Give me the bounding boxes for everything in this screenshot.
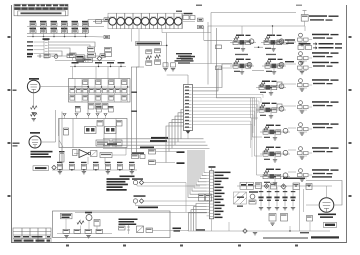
wire to terminal E1 — [88, 20, 104, 27]
node wire row — [55, 60, 115, 62]
bottom wire right — [188, 229, 262, 235]
top box B1 — [97, 121, 103, 127]
border bottom — [12, 242, 347, 244]
net label heater 4 — [140, 147, 154, 149]
filter capacitor bank — [258, 187, 295, 210]
relay cluster RL1 — [132, 152, 146, 158]
power bus wire — [52, 169, 137, 171]
bus filter capacitors — [57, 162, 135, 170]
zone tick left C — [8, 142, 20, 147]
psu small box — [307, 216, 313, 222]
speaker comp marks — [127, 225, 130, 234]
connector P1 right fan drops — [251, 94, 264, 157]
revision table row 1 text — [15, 5, 69, 7]
wire segment w1 — [50, 55, 67, 57]
net label gnd1 — [177, 151, 185, 153]
diode CR1 diamond — [97, 56, 102, 61]
stage1 value text — [235, 54, 276, 55]
input network rail 1 — [27, 26, 90, 28]
wire segment w2 — [85, 55, 101, 57]
vertical bus v2 — [61, 112, 63, 171]
under-block clusters — [75, 106, 114, 112]
psu bus wire — [237, 185, 332, 187]
output grounds — [64, 236, 90, 238]
revision table row 2 cells — [14, 7, 67, 10]
amplifier stage 1a — [230, 26, 256, 51]
psu diamond 2 — [281, 184, 286, 189]
matrix row4 boxes — [89, 104, 109, 110]
matrix junction dots — [74, 86, 128, 87]
connector J1 left pin wires — [34, 42, 45, 54]
output group 9 — [298, 169, 339, 182]
stage4 out components — [277, 104, 296, 108]
output transistor Q5 — [85, 212, 92, 221]
input network bottom rail — [27, 36, 88, 37]
node drop x88 — [87, 86, 89, 113]
zone number 4 bottom — [238, 245, 241, 247]
wire top bus 2 — [208, 25, 305, 27]
connector P2 body — [210, 168, 214, 219]
matrix row3 boxes — [70, 96, 127, 101]
title table bottom row — [14, 240, 50, 242]
indicator wire 4 — [136, 203, 197, 205]
resistor network RN1 — [70, 53, 77, 61]
stage bus verticals — [251, 98, 257, 175]
delay cluster D1 — [85, 127, 97, 134]
component B5 — [73, 150, 78, 156]
zone mark top right — [296, 5, 302, 7]
bus feed drops — [62, 148, 105, 165]
stage feed stubs — [251, 118, 263, 175]
amplifier stage 4 — [256, 103, 286, 119]
component cluster A1 — [44, 54, 50, 58]
connector P1 left fan wires — [156, 110, 184, 163]
label text impedance — [76, 59, 86, 62]
text under flags — [180, 56, 195, 60]
bottom box B4 — [112, 140, 122, 146]
psu lower wire — [262, 230, 330, 232]
output squiggle R20 — [77, 220, 84, 225]
stage2 link wire — [216, 66, 265, 71]
connector P1 right fan wires — [193, 94, 264, 124]
bus junctions — [59, 169, 132, 170]
connector P1 right fan wires up — [193, 64, 233, 91]
stage1 link wire — [216, 45, 264, 49]
regulator box VR1 — [100, 153, 112, 158]
tube V2 notes — [31, 151, 53, 158]
speaker comp 1 — [119, 226, 126, 230]
schematic notes block — [107, 176, 135, 191]
zone mark top left — [196, 5, 202, 7]
bus component mark — [196, 222, 229, 231]
rectifier cluster — [237, 191, 258, 207]
speaker label right — [173, 228, 182, 232]
net wire heater 2 — [103, 141, 206, 143]
resistor R2 box — [88, 47, 95, 52]
oscillator top wire — [162, 26, 211, 44]
hatched box H1 — [91, 151, 98, 157]
control block inner frame — [73, 119, 116, 148]
stage2 out wire — [284, 61, 296, 64]
grid resistor R8 — [31, 113, 38, 121]
stage6 out wire — [288, 149, 296, 151]
psu bus junctions — [266, 185, 310, 187]
revision table frame — [14, 4, 68, 16]
terminal flag E3 — [100, 54, 106, 57]
output arrows group — [298, 43, 342, 50]
amplifier stage 1b — [261, 25, 286, 51]
connector J1 label — [43, 38, 50, 40]
indicator DS1 label — [132, 178, 143, 180]
oscillator drop wire A — [131, 67, 139, 155]
oscillator right wire — [161, 44, 168, 67]
tube V1 plate wire — [40, 86, 88, 88]
psu cluster 4 — [306, 184, 312, 190]
connector P2 pin stubs — [207, 173, 210, 216]
output group 4 — [298, 61, 339, 74]
speaker xbox — [137, 226, 144, 233]
output group 8 — [298, 147, 339, 160]
title table cols — [22, 228, 46, 243]
wire to terminal E2 — [88, 36, 104, 38]
output group 6 — [298, 101, 339, 114]
rectifier tube V3 — [319, 198, 334, 213]
wire top bus 1 — [211, 12, 296, 14]
title bar Sensor Technologies — [18, 11, 66, 16]
bottom box B3 — [96, 140, 110, 146]
terminal flag E2 — [104, 35, 110, 38]
connector P2 left fan wires upper — [188, 150, 207, 197]
vertical bus v3 — [58, 118, 60, 136]
input network row 2 components — [30, 28, 89, 33]
zone tick right A — [349, 36, 352, 38]
matrix row1 boxes — [83, 80, 127, 85]
drawing number box — [324, 222, 337, 227]
coil chain top stubs — [108, 11, 182, 22]
stage5 out wire — [288, 127, 296, 129]
zone number 1 bottom — [66, 245, 69, 247]
output bottom components — [63, 229, 103, 233]
capacitor C11 — [59, 151, 65, 164]
title table rows — [13, 232, 51, 239]
output bottom rail — [57, 233, 112, 235]
connector P2 pin dividers — [210, 173, 213, 216]
connector J1 fan-out wires — [49, 42, 96, 56]
transistor Q1 — [52, 55, 58, 59]
title text line — [263, 232, 339, 239]
top box B2 — [117, 121, 123, 127]
wire top bus 2 drop — [207, 22, 209, 85]
output box C20 — [94, 220, 100, 227]
output drops — [66, 219, 97, 229]
vertical bus v1 — [55, 110, 57, 142]
net label VIN — [27, 54, 33, 58]
capacitor C3 — [37, 54, 43, 57]
zone tick left D — [8, 195, 11, 197]
input network row 1 components — [30, 21, 89, 26]
title table outline — [13, 228, 51, 243]
net label heater 2 — [150, 140, 167, 142]
connector P1 bottom arrow — [186, 131, 191, 139]
terminal flag E5 — [198, 25, 204, 28]
indicator wire 3 — [144, 200, 208, 202]
output group top — [301, 11, 338, 27]
wire vr1 right — [112, 147, 126, 155]
tube V2 grid wire — [41, 141, 56, 143]
zone number 3 bottom — [180, 245, 183, 247]
resistor R3 box — [88, 53, 96, 58]
input network rail 2 — [27, 32, 88, 34]
delay line coil chain L1-L9 — [93, 13, 182, 29]
aux box pair — [199, 194, 212, 201]
ground cluster G2 — [171, 63, 176, 71]
psu lower cluster 2 — [281, 214, 288, 222]
wire P2 bottom — [211, 219, 213, 231]
oscillator drop wire B — [137, 67, 145, 152]
indicator wire 2 — [137, 185, 200, 186]
psu cluster 3 — [293, 183, 300, 190]
tube V2 — [29, 136, 41, 148]
zone number 2 bottom — [123, 245, 126, 247]
connector P2 label — [209, 166, 216, 168]
wire from amp label — [75, 207, 207, 213]
connector J1 pin labels — [27, 41, 33, 54]
psu junction diamond — [264, 184, 269, 189]
component box K1 — [149, 150, 156, 155]
output group 7 — [298, 123, 339, 136]
zone tick right C — [349, 142, 352, 144]
big loop wire — [217, 28, 256, 98]
tube V1 label — [29, 78, 39, 80]
connector P1 pin dividers — [185, 88, 192, 128]
output label box — [61, 213, 73, 219]
ground cluster G1 — [163, 63, 168, 71]
net wire heater 3 — [103, 144, 208, 146]
speaker notes text — [119, 219, 138, 226]
output section box — [53, 211, 171, 238]
left column component — [59, 128, 69, 147]
terminal flag E4 — [198, 18, 204, 21]
wire to stage row 2 — [178, 63, 232, 65]
amplifier stage 2b — [262, 59, 286, 75]
tube V1 cathode wire — [33, 93, 35, 106]
tube V3 label — [318, 214, 336, 218]
loop wire stub — [204, 26, 232, 40]
zone tick left A — [8, 36, 11, 38]
net label heater 3 — [107, 92, 137, 145]
wire top bus 1 drop — [210, 13, 212, 64]
transformer box T3 — [234, 192, 247, 204]
input rail drops — [33, 33, 86, 36]
title table text row — [14, 236, 50, 238]
component box K2 — [149, 160, 156, 165]
control block outline — [59, 119, 127, 148]
psu lower cluster 1 — [269, 214, 276, 226]
connector P1 body — [184, 85, 193, 131]
tube V1 — [27, 80, 40, 93]
amplifier stage 7 — [260, 169, 290, 186]
stage7 out wire — [288, 171, 296, 173]
zone tick left B — [8, 89, 17, 91]
filter cluster FL1 — [83, 58, 93, 62]
amplifier stage 3 — [256, 81, 286, 96]
net label gnd2 — [177, 162, 185, 164]
op-amp U4 — [74, 150, 91, 158]
matrix row2 boxes — [70, 88, 127, 93]
output group 5 — [298, 79, 339, 92]
stage3 out components — [277, 82, 296, 86]
speaker comp 2 — [146, 228, 153, 233]
net wire heater 4 — [103, 147, 210, 149]
net label heater 1 — [151, 137, 168, 139]
psu cluster 2 — [271, 183, 277, 189]
zone number 5 bottom — [295, 245, 298, 247]
delay cluster D2 — [105, 127, 117, 134]
connector P2 pin labels — [215, 172, 231, 219]
stage1 out components — [277, 40, 296, 44]
border right — [346, 5, 348, 243]
tube V2 label — [30, 132, 40, 134]
indicator DS1 — [133, 180, 186, 212]
border left — [11, 5, 13, 243]
psu lower wire 2 — [289, 222, 310, 232]
label box oscillator — [135, 42, 161, 46]
connector P1 top wire — [167, 75, 188, 85]
tube V3 wires — [283, 178, 342, 206]
zone tick right B — [349, 89, 352, 91]
output group 2 — [298, 33, 339, 46]
matrix block rail mid1 — [69, 86, 131, 88]
bias rail drops — [73, 67, 120, 79]
capacitor C2 cluster — [105, 48, 112, 57]
matrix block rail mid2 — [69, 94, 131, 96]
zone tick right D — [349, 195, 352, 197]
wire top bus 3 drop — [304, 26, 306, 31]
matrix block columns — [75, 79, 128, 103]
cathode resistor R7 — [31, 106, 38, 110]
oscillator vertical wire — [131, 29, 139, 67]
heater arrow marks — [63, 114, 107, 119]
matrix block outline — [69, 79, 131, 103]
psu vertical pair — [300, 189, 304, 231]
input network column wires — [33, 27, 86, 34]
net wire heater 1 — [103, 138, 204, 140]
terminal flag E1 — [104, 18, 110, 21]
indicator DS2 — [133, 195, 145, 203]
bus grounds — [58, 172, 134, 174]
stage1 out label — [285, 39, 295, 44]
speaker wire — [153, 229, 171, 231]
component cluster A2 — [67, 54, 74, 58]
amplifier stage 5 — [260, 125, 290, 141]
notes text right of oscillator — [175, 53, 194, 64]
component cluster T2 — [183, 13, 195, 22]
label box 1-2-1 — [76, 55, 85, 59]
connector P2 left fan wires lower — [189, 204, 207, 232]
cathode ground — [32, 113, 36, 115]
psu cluster 1 — [256, 183, 262, 189]
amplifier stage 2a — [230, 59, 254, 75]
label box JTC 047 — [33, 166, 49, 171]
bias rail top — [70, 66, 126, 68]
oscillator components U2 — [146, 49, 161, 66]
output group 3 — [298, 52, 339, 65]
bias rail components — [72, 62, 125, 67]
amplifier stage 6 — [260, 147, 290, 163]
bus diamond CR5 — [52, 165, 56, 169]
bottom connect wire — [170, 229, 188, 232]
psu label box — [240, 182, 254, 189]
connector J1 body — [44, 41, 49, 59]
